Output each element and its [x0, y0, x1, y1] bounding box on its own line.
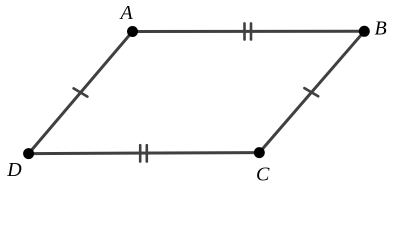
svg-text:A: A [119, 2, 134, 24]
svg-text:D: D [6, 159, 22, 181]
svg-text:B: B [375, 18, 387, 40]
svg-text:C: C [256, 164, 270, 186]
